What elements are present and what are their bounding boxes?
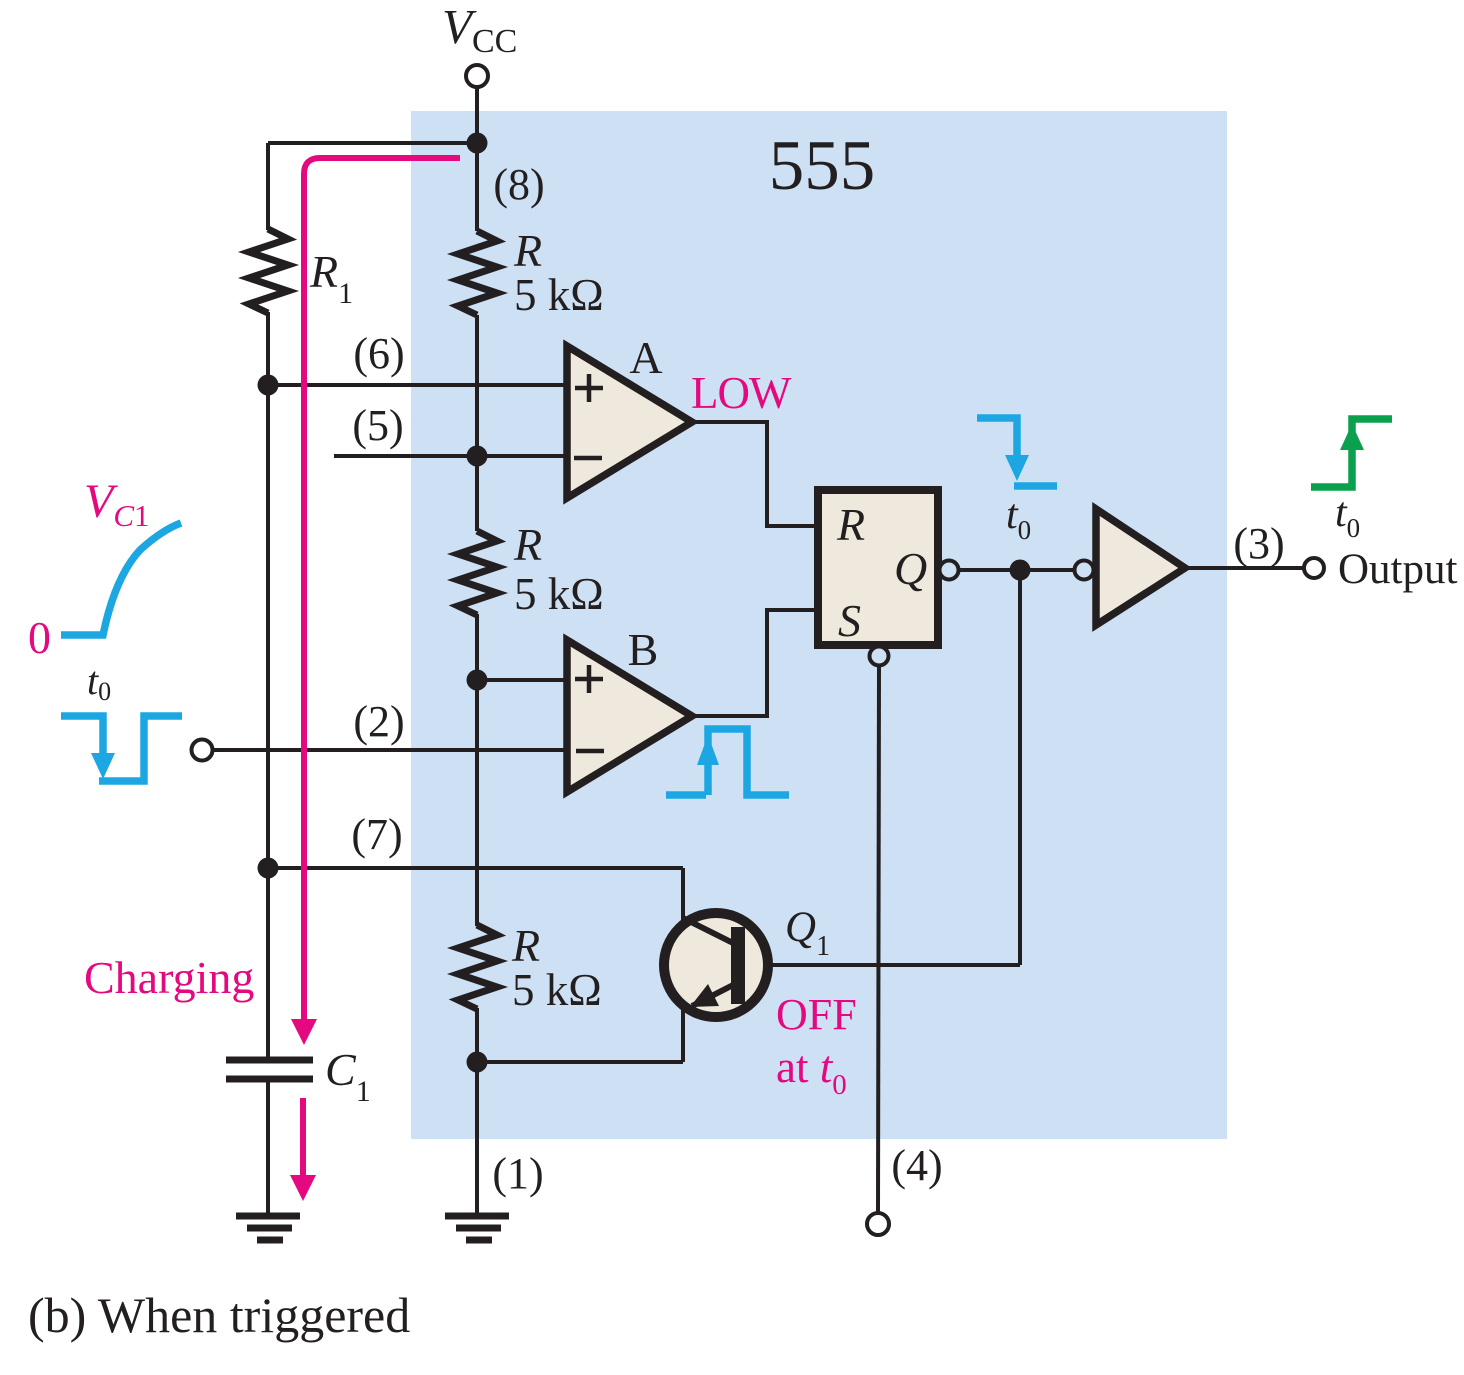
svg-text:OFF: OFF xyxy=(776,990,857,1039)
wire emitter down xyxy=(681,1006,685,1062)
capacitor C1 xyxy=(226,1060,313,1079)
svg-text:(2): (2) xyxy=(353,697,404,746)
wire pin4 reset xyxy=(878,665,879,1213)
wire buffer output to pin3 xyxy=(1185,566,1304,570)
svg-text:t0: t0 xyxy=(1335,490,1360,543)
charging path lower arrowhead xyxy=(290,1175,316,1201)
svg-text:R: R xyxy=(513,519,542,570)
svg-text:VCC: VCC xyxy=(442,0,517,60)
node pin7 junction xyxy=(258,858,279,879)
svg-text:(b) When triggered: (b) When triggered xyxy=(28,1287,410,1343)
wire pin2 trigger xyxy=(212,748,567,752)
wire Vcc stub xyxy=(475,87,479,143)
svg-text:LOW: LOW xyxy=(691,368,792,418)
svg-text:B: B xyxy=(628,624,659,675)
wire pin6 threshold xyxy=(268,383,567,387)
node pin5 junction xyxy=(467,446,488,467)
svg-text:5 kΩ: 5 kΩ xyxy=(514,569,604,619)
terminal pin3 xyxy=(1304,558,1324,578)
node Q line junction xyxy=(1010,560,1031,581)
svg-text:VC1: VC1 xyxy=(84,475,150,533)
svg-text:R: R xyxy=(836,499,865,550)
wire divider between R top and R mid xyxy=(475,315,479,531)
wire divider mid rail xyxy=(475,614,479,926)
transistor emitter lead xyxy=(692,983,737,1006)
node pin8 junction xyxy=(467,133,488,154)
waveform comparator B output pulse xyxy=(666,791,706,799)
wire comparator B output to latch S xyxy=(692,610,818,716)
charging path lower segment xyxy=(300,1098,306,1176)
wire comparator A output to latch R xyxy=(692,422,818,526)
buffer output stage xyxy=(1096,509,1185,625)
transistor base bar xyxy=(731,927,745,1004)
node comparator B plus junction xyxy=(467,670,488,691)
svg-text:t0: t0 xyxy=(87,658,111,706)
svg-text:A: A xyxy=(629,332,662,383)
svg-text:Output: Output xyxy=(1338,546,1458,593)
ground (pin 1) xyxy=(445,1216,509,1240)
terminal Vcc xyxy=(466,65,488,87)
node emitter loop junction xyxy=(467,1052,488,1073)
svg-text:555: 555 xyxy=(769,127,876,205)
wire top horizontal (Vcc to R1 branch) xyxy=(268,141,477,145)
plus sign comparator A xyxy=(575,374,603,402)
comparator A xyxy=(567,346,692,498)
svg-text:(5): (5) xyxy=(352,401,403,450)
resistor R 5k (middle) xyxy=(458,531,497,615)
555 IC shaded panel xyxy=(411,111,1227,1139)
wire Q junction down to transistor base xyxy=(1018,570,1022,965)
terminal pin2 xyxy=(192,740,213,761)
bubble latch Q output xyxy=(940,561,959,580)
wire R1 bottom xyxy=(266,312,270,385)
wire to comparator B plus xyxy=(477,678,567,682)
wire C1 to ground xyxy=(266,1082,270,1216)
wire transistor base horizontal xyxy=(745,963,1020,967)
minus sign comparator A xyxy=(574,456,602,461)
waveform output rising step (green) xyxy=(1311,419,1392,487)
minus sign comparator B xyxy=(576,749,604,754)
charging path arrowhead xyxy=(291,1019,317,1045)
svg-text:5 kΩ: 5 kΩ xyxy=(512,965,602,1015)
svg-text:R: R xyxy=(511,920,540,971)
svg-text:5 kΩ: 5 kΩ xyxy=(514,270,604,320)
svg-text:(4): (4) xyxy=(891,1141,942,1190)
resistor R 5k (bottom) xyxy=(458,925,497,1009)
transistor Q1 xyxy=(664,913,768,1017)
resistor R1 xyxy=(249,229,288,313)
waveform VC1 charging curve xyxy=(61,523,181,635)
wire bottom rail to ground xyxy=(475,1008,479,1216)
waveform trigger pulse xyxy=(61,716,103,757)
charging current path (magenta) xyxy=(304,158,460,1021)
svg-text:S: S xyxy=(838,595,861,646)
svg-text:(3): (3) xyxy=(1233,519,1284,568)
bubble latch bottom xyxy=(870,647,889,666)
svg-text:Q: Q xyxy=(894,543,927,594)
svg-text:Charging: Charging xyxy=(84,952,254,1003)
resistor R 5k (top) xyxy=(458,231,497,315)
node junction R1/C1/pin6 xyxy=(258,375,279,396)
comparator B xyxy=(567,640,692,792)
plus sign comparator B xyxy=(575,665,603,693)
transistor collector lead xyxy=(683,918,735,944)
svg-text:R: R xyxy=(513,225,542,276)
wire left rail down to C1 xyxy=(266,385,270,1057)
waveform Q falling step xyxy=(977,418,1017,455)
svg-text:(8): (8) xyxy=(493,160,544,209)
wire emitter loop bottom xyxy=(477,1060,683,1064)
svg-text:R1: R1 xyxy=(309,246,353,310)
terminal pin4 xyxy=(867,1213,889,1235)
transistor emitter arrowhead xyxy=(690,984,719,1007)
wire pin7 discharge xyxy=(268,866,683,870)
svg-text:C1: C1 xyxy=(325,1044,371,1108)
svg-text:(7): (7) xyxy=(351,810,402,859)
latch U1 R-S xyxy=(818,490,938,645)
bubble buffer input xyxy=(1075,561,1094,580)
wire collector up to pin7 line xyxy=(681,868,685,920)
wire pin5 control stub xyxy=(334,454,567,458)
svg-text:0: 0 xyxy=(28,612,51,663)
wire R1 top drop xyxy=(266,143,270,230)
ground (C1) xyxy=(236,1216,300,1240)
svg-text:(1): (1) xyxy=(492,1149,543,1198)
svg-text:(6): (6) xyxy=(353,329,404,378)
wire pin8 rail into divider xyxy=(475,143,479,231)
wire Q to buffer xyxy=(959,568,1075,572)
